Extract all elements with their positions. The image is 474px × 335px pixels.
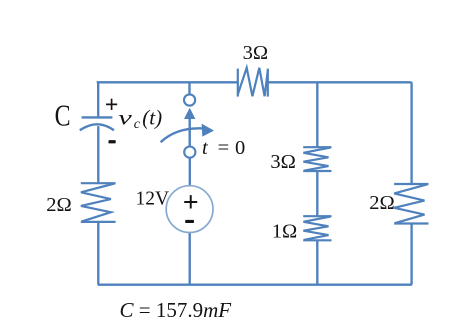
svg-text:3Ω: 3Ω <box>270 151 296 173</box>
wire mid-right branch lower <box>316 240 318 284</box>
svg-text:+: + <box>105 93 119 119</box>
wire right branch upper <box>410 82 412 184</box>
wire left branch upper (to capacitor) <box>97 81 99 116</box>
svg-text:C: C <box>55 97 71 132</box>
svg-text:3Ω: 3Ω <box>243 42 269 64</box>
wire left branch middle (capacitor to 2Ω) <box>97 126 99 183</box>
resistor 1Ω (middle branch, vertical) <box>303 216 331 240</box>
switch SW (t=0): upper contact circle <box>184 94 195 105</box>
resistor 2Ω (right, vertical) <box>394 184 428 224</box>
voltage source 12V (circle) <box>166 186 213 233</box>
svg-text:1Ω: 1Ω <box>272 221 298 243</box>
svg-text:vc(t): vc(t) <box>118 106 162 133</box>
wire middle branch (switch to source) <box>189 158 191 186</box>
wire mid-right branch between 3Ω and 1Ω <box>316 171 318 216</box>
capacitor C (plates) <box>80 117 114 130</box>
svg-text:2Ω: 2Ω <box>369 192 395 214</box>
switch SW (t=0): lower contact circle <box>184 147 195 158</box>
wire right branch lower <box>410 224 412 285</box>
svg-text:2Ω: 2Ω <box>46 194 72 216</box>
svg-text:C = 157.9mF: C = 157.9mF <box>120 298 232 322</box>
resistor 3Ω (top, horizontal) <box>238 68 268 97</box>
resistor 3Ω (middle branch, vertical) <box>303 147 331 171</box>
switch closing arrow (curved, pointing right) <box>161 124 214 143</box>
wire top (right segment) <box>268 81 412 83</box>
wire top (left segment) <box>97 81 238 83</box>
svg-text:+: + <box>183 187 199 218</box>
wire middle branch (source to bottom) <box>189 232 191 285</box>
polarity - (capacitor) <box>109 140 116 143</box>
switch arm arrow (vertical, pointing up) <box>184 108 195 147</box>
wire mid-right branch upper <box>316 82 318 147</box>
polarity - (source) <box>185 220 194 223</box>
wire middle branch stub (top to switch) <box>188 82 190 94</box>
resistor 2Ω (left, vertical) <box>81 183 116 222</box>
svg-text:t=0: t=0 <box>202 137 245 159</box>
wire left branch lower (2Ω to bottom) <box>97 222 99 285</box>
svg-text:12V: 12V <box>136 189 170 210</box>
wire bottom <box>98 284 412 286</box>
